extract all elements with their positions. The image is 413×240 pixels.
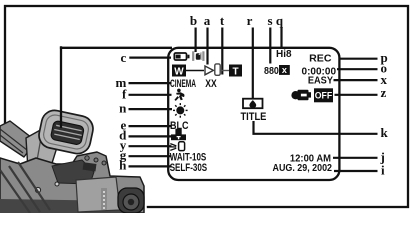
svg-text:EASY: EASY — [308, 75, 334, 87]
svg-text:t: t — [220, 13, 225, 28]
svg-text:c: c — [121, 50, 127, 65]
svg-text:i: i — [381, 162, 385, 177]
svg-text:W: W — [174, 66, 184, 77]
svg-text:q: q — [276, 13, 284, 28]
svg-text:CINEMA: CINEMA — [170, 77, 196, 89]
svg-text:880: 880 — [264, 66, 279, 78]
svg-text:OFF: OFF — [315, 90, 333, 100]
svg-text:r: r — [247, 13, 253, 28]
svg-text:T: T — [232, 66, 238, 77]
svg-text:a: a — [204, 13, 211, 28]
svg-text:b: b — [190, 13, 197, 28]
svg-text:AUG. 29, 2002: AUG. 29, 2002 — [273, 162, 333, 174]
svg-text:h: h — [119, 158, 127, 173]
svg-text:k: k — [381, 125, 389, 140]
svg-text:z: z — [381, 85, 387, 100]
svg-text:s: s — [267, 13, 272, 28]
svg-text:TITLE: TITLE — [240, 111, 266, 123]
svg-text:n: n — [119, 101, 127, 116]
svg-text:SELF-30S: SELF-30S — [170, 162, 208, 175]
svg-text:f: f — [122, 87, 127, 102]
svg-text:XX: XX — [205, 78, 217, 90]
svg-text:REC: REC — [309, 54, 332, 65]
svg-text:x: x — [282, 65, 287, 75]
svg-text:Hi8: Hi8 — [276, 49, 292, 60]
